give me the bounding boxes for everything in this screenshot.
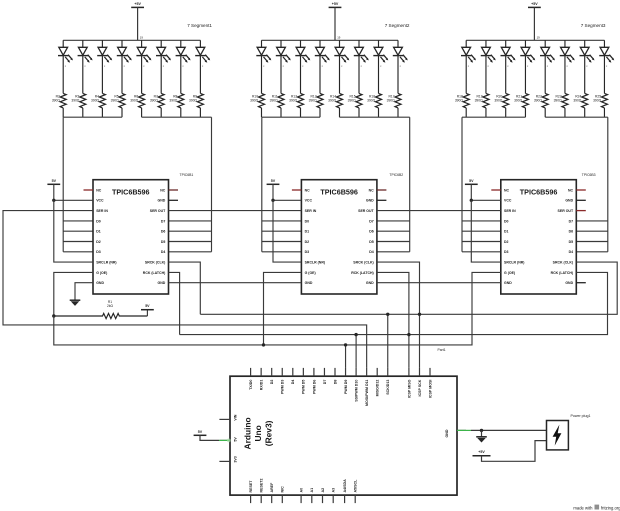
resistor R2 390ohm [52,93,66,117]
LED segment H display 3 [599,40,614,93]
ground symbol near plug [481,430,483,436]
svg-text:5V: 5V [271,179,276,183]
node PWM D9 junction [344,343,347,346]
wire GND U1 to GND U2 [169,282,302,284]
wire resistor bus right half block 1 [142,116,212,118]
svg-text:Arduino: Arduino [243,417,253,449]
resistor R5 390ohm [111,93,125,117]
power +5V near plug [473,455,491,457]
pin SER OUT U3 stub [576,210,586,212]
LED segment G display 2 [373,40,388,93]
svg-text:D5: D5 [161,240,166,244]
node +5V bus 7-segment block 1 [63,39,200,41]
svg-text:RX/D1: RX/D1 [260,380,264,391]
svg-text:SER IN: SER IN [96,209,108,213]
svg-text:G (OE): G (OE) [504,271,515,275]
pin RESET Arduino [250,495,252,503]
pin D4 Arduino [292,368,294,376]
svg-text:D7: D7 [161,219,166,223]
svg-text:19: 19 [337,36,341,40]
wire D7 to U2 [377,220,410,222]
wire RCK rail [180,272,608,334]
wire SER OUT U2 to SER IN U3 [377,210,501,212]
wire D6 to U1 [169,230,212,232]
pin GND U2 right stub [377,199,387,201]
LED segment H display 2 [393,40,408,93]
svg-text:D3: D3 [504,250,509,254]
svg-text:PWM D9: PWM D9 [344,380,348,394]
svg-text:390Ω: 390Ω [130,99,139,103]
pin NC U1 right stub [169,189,179,191]
svg-text:TPIC6B2: TPIC6B2 [389,173,403,177]
LED segment C display 2 [295,40,310,93]
pin NC U1 left stub [84,189,94,191]
LED segment A display 1 [58,40,73,93]
shift register U1 TPIC6B596 [93,180,169,294]
pin D2 Arduino [271,368,273,376]
svg-text:390Ω: 390Ω [494,99,503,103]
svg-text:D2: D2 [504,240,509,244]
svg-text:D5: D5 [569,240,574,244]
svg-text:A2: A2 [321,488,325,493]
wire RCK U2 to ICSP MISO [377,272,409,368]
svg-text:390Ω: 390Ω [348,99,357,103]
wire D3 to U1 [63,251,93,253]
LED segment G display 3 [580,40,595,93]
resistor R14 390ohm [328,93,342,117]
svg-text:5V: 5V [198,430,203,434]
svg-text:D1: D1 [305,230,310,234]
LED segment F display 1 [156,40,171,93]
svg-text:A5/SCL: A5/SCL [354,479,358,493]
resistor R24 390ohm [573,93,587,117]
svg-text:SER OUT: SER OUT [358,209,374,213]
svg-text:D0: D0 [504,219,509,223]
wire right trunk D4-D7 block 1 [211,117,213,252]
pin SCK/D13 Arduino [387,368,389,376]
svg-text:7 Segment1: 7 Segment1 [187,23,212,28]
svg-text:NC: NC [160,188,166,192]
svg-text:D4: D4 [569,250,574,254]
pin PWM D9 Arduino [345,368,347,376]
wire D7 to U1 [169,220,212,222]
svg-text:+5V: +5V [478,450,485,454]
shift register U3 TPIC6B596 [501,180,577,294]
svg-text:A3: A3 [332,488,336,493]
pin 3V3 Arduino [219,460,230,462]
wire GND U2 to GND U3 [377,282,501,284]
svg-text:390Ω: 390Ω [270,99,279,103]
svg-text:D0: D0 [96,219,101,223]
wire D5 to U2 [377,241,410,243]
wire SCK D13 to rail [387,314,389,368]
wire 5V to Arduino 5V pin [200,435,219,440]
svg-text:SCK/D13: SCK/D13 [386,380,390,395]
svg-text:D1: D1 [504,230,509,234]
resistor R20 390ohm [494,93,508,117]
svg-text:390Ω: 390Ω [150,99,159,103]
pin NC U2 right stub [377,189,387,191]
svg-text:ICSP MISO: ICSP MISO [407,379,411,398]
node +5V bus 7-segment block 2 [262,39,399,41]
wire SER OUT U1 to SER IN U2 [169,210,302,212]
power plug1 [547,421,569,450]
svg-text:390Ω: 390Ω [554,99,563,103]
resistor R19 390ohm [475,93,489,117]
wire D2 to U2 [262,241,302,243]
svg-text:NC: NC [504,188,510,192]
wire resistor bus left half block 2 [262,116,320,118]
LED segment D display 3 [520,40,535,93]
svg-text:5V: 5V [145,304,150,308]
wire +5V to power plug [482,441,547,462]
svg-text:D3: D3 [96,250,101,254]
wire left trunk D0-D3 block 2 [261,117,263,252]
svg-text:19: 19 [537,36,541,40]
svg-text:TPIC6B3: TPIC6B3 [582,173,596,177]
node SRCK ICSP junction [418,313,421,316]
wire D0 to U2 [262,220,302,222]
svg-text:390Ω: 390Ω [289,99,298,103]
svg-text:(Rev3): (Rev3) [264,420,274,446]
pin NC U3 left stub [491,189,501,191]
wire D1 to U1 [63,230,93,232]
svg-text:A0: A0 [300,488,304,493]
svg-text:390Ω: 390Ω [91,99,100,103]
wire G OE rail [54,272,501,345]
svg-text:NC: NC [305,188,311,192]
LED segment D display 1 [117,40,132,93]
shift register U2 TPIC6B596 [301,180,377,294]
pin A5/SCL Arduino [354,495,356,503]
pin NC U3 right stub [576,189,586,191]
wire VCC U2 [273,199,301,201]
svg-text:VCC: VCC [96,199,104,203]
svg-text:D3: D3 [305,250,310,254]
wire resistor bus left half block 1 [63,116,122,118]
svg-text:RESET: RESET [249,480,253,493]
wire left trunk D0-D3 block 1 [62,117,64,252]
svg-text:390Ω: 390Ω [189,99,198,103]
wire resistor bus right half block 2 [340,116,410,118]
pin NC U2 left stub [292,189,302,191]
svg-text:GND: GND [504,281,512,285]
pin ICSP SCK Arduino [419,368,421,376]
node G OE U2 junction [262,343,265,346]
pin PWM D5 Arduino [302,368,304,376]
svg-text:D4: D4 [161,250,166,254]
power +5V supply block 1 [131,6,144,8]
svg-text:RESET2: RESET2 [260,479,264,493]
svg-text:19: 19 [140,36,144,40]
svg-text:GND: GND [158,281,166,285]
svg-text:Power plug1: Power plug1 [571,414,591,418]
pin VIN Arduino [219,418,230,420]
svg-text:390Ω: 390Ω [367,99,376,103]
svg-text:390Ω: 390Ω [593,99,602,103]
pin RESET2 Arduino [260,495,262,503]
wire SRCLR to 5V U2 [273,200,301,262]
wire D5 to U1 [169,241,212,243]
pin SS/PWM D10 Arduino [355,368,357,376]
svg-text:+5V: +5V [332,2,339,6]
LED segment B display 3 [481,40,496,93]
svg-text:390Ω: 390Ω [328,99,337,103]
wire D6 to U2 [377,230,410,232]
svg-text:390Ω: 390Ω [534,99,543,103]
svg-text:N/C: N/C [281,486,285,493]
pin A4/SDA Arduino [344,495,346,503]
svg-text:D7: D7 [323,380,327,385]
svg-text:SRCLR (NR): SRCLR (NR) [504,261,524,265]
svg-text:Part1: Part1 [438,348,446,352]
svg-text:G (OE): G (OE) [96,271,107,275]
svg-text:VIN: VIN [234,414,238,420]
svg-text:D0: D0 [305,219,310,223]
resistor R22 390ohm [534,93,548,117]
svg-text:Uno: Uno [253,425,263,441]
svg-text:D8: D8 [333,380,337,385]
resistor R17 390ohm [387,93,401,117]
wire resistor bus left half block 3 [462,116,525,118]
svg-text:390Ω: 390Ω [169,99,178,103]
pin GND U3 right stub [576,199,586,201]
svg-text:NC: NC [568,188,574,192]
svg-text:390Ω: 390Ω [111,99,120,103]
watermark [573,505,620,511]
svg-text:390Ω: 390Ω [387,99,396,103]
node RCK ICSP junction [407,333,410,336]
LED segment B display 2 [276,40,291,93]
svg-text:made with: made with [573,505,593,510]
svg-text:MOSI/PWM D11: MOSI/PWM D11 [365,380,369,406]
wire D0 to U3 [462,220,501,222]
resistor R6 390ohm [130,93,144,117]
svg-text:D7: D7 [569,219,574,223]
svg-text:GND: GND [565,281,573,285]
pin TX/D0 Arduino [250,368,252,376]
svg-text:390Ω: 390Ω [455,99,464,103]
resistor R4 390ohm [91,93,105,117]
wire D4 to U2 [377,251,410,253]
svg-text:TPIC6B596: TPIC6B596 [112,187,150,196]
resistor R1 2k pullup [54,313,148,318]
svg-text:RCK (LATCH): RCK (LATCH) [143,271,166,275]
svg-text:5V: 5V [52,179,57,183]
LED segment E display 1 [136,40,151,93]
wire D3 to U3 [462,251,501,253]
Arduino Uno Part1 [230,376,457,495]
wire right trunk D4-D7 block 2 [409,117,411,252]
ground symbol U1 [70,300,81,306]
resistor R25 390ohm [593,93,607,117]
pin PWM D6 Arduino [313,368,315,376]
LED segment A display 2 [256,40,271,93]
wire VCC U3 [471,199,501,201]
LED segment G display 1 [176,40,191,93]
svg-text:D6: D6 [369,230,374,234]
wire SER IN U1 to MOSI D11 [3,211,367,368]
svg-text:MISO/D12: MISO/D12 [376,380,380,397]
svg-text:3V3: 3V3 [234,456,238,462]
svg-text:PWM D6: PWM D6 [312,380,316,394]
svg-text:SRCLR (NR): SRCLR (NR) [96,261,116,265]
resistor R10 390ohm [250,93,264,117]
power 5V supply U1 [47,183,60,185]
pin MOSI/PWM D11 Arduino [366,368,368,376]
svg-text:390Ω: 390Ω [71,99,80,103]
power 5V supply U2 [267,183,280,185]
svg-text:A1: A1 [310,488,314,493]
resistor R7 390ohm [150,93,164,117]
svg-text:D4: D4 [369,250,374,254]
svg-text:D2: D2 [270,380,274,385]
resistor R9 390ohm [189,93,203,117]
svg-text:SRCLR (NR): SRCLR (NR) [305,261,325,265]
svg-text:RCK (LATCH): RCK (LATCH) [551,271,574,275]
wire G OE U1 down [54,272,93,316]
pin GND Arduino [457,429,466,431]
svg-text:ICSP SCK: ICSP SCK [418,379,422,396]
LED segment E display 3 [540,40,555,93]
wire resistor bus right half block 3 [545,116,608,118]
pin MISO/D12 Arduino [376,368,378,376]
svg-text:SS/PWM D10: SS/PWM D10 [355,380,359,402]
wire left trunk D0-D3 block 3 [461,117,463,252]
pin A3 Arduino [332,495,334,503]
wire D3 to U2 [262,251,302,253]
svg-text:D2: D2 [305,240,310,244]
wire D7 to U3 [576,220,608,222]
svg-text:+5V: +5V [531,2,538,6]
wire D4 to U1 [169,251,212,253]
wire SRCLR to 5V U1 [54,200,93,262]
power 5V supply U3 [465,183,478,185]
pin N/C Arduino [281,495,283,503]
LED segment A display 3 [461,40,476,93]
resistor R13 390ohm [309,93,323,117]
svg-text:RCK (LATCH): RCK (LATCH) [351,271,374,275]
svg-text:TPIC6B1: TPIC6B1 [180,173,194,177]
svg-text:5V: 5V [234,437,238,442]
power +5V supply block 2 [329,6,342,8]
svg-text:GND: GND [96,281,104,285]
svg-text:GND: GND [565,199,573,203]
wire D6 to U3 [576,230,608,232]
node VCC junction U2 [271,199,274,202]
svg-text:7 Segment2: 7 Segment2 [385,23,410,28]
LED segment D display 2 [315,40,330,93]
svg-text:390Ω: 390Ω [573,99,582,103]
wire SRCLR to 5V U3 [471,200,501,262]
LED segment C display 3 [501,40,516,93]
svg-text:GND: GND [445,429,449,437]
svg-text:D2: D2 [96,240,101,244]
svg-text:D6: D6 [569,230,574,234]
pin 5V Arduino [219,439,230,441]
LED segment H display 1 [195,40,210,93]
LED segment C display 1 [97,40,112,93]
pin ICSP MISO Arduino [408,368,410,376]
svg-text:SRCK (CLK): SRCK (CLK) [553,261,573,265]
svg-text:SRCK (CLK): SRCK (CLK) [353,261,373,265]
svg-text:PWM D3: PWM D3 [281,380,285,394]
power +5V supply block 3 [528,6,541,8]
wire SS D10 to rail [355,335,357,368]
resistor R15 390ohm [348,93,362,117]
wire G OE U2 [264,272,302,345]
svg-text:PWM D5: PWM D5 [302,380,306,394]
svg-text:D7: D7 [369,219,374,223]
svg-text:SER OUT: SER OUT [558,209,574,213]
LED segment F display 3 [560,40,575,93]
wire VCC U1 [54,199,93,201]
svg-text:VCC: VCC [504,199,512,203]
pin RX/D1 Arduino [260,368,262,376]
svg-text:TX/D0: TX/D0 [249,380,253,390]
svg-text:GND: GND [366,281,374,285]
svg-text:390Ω: 390Ω [250,99,259,103]
wire G OE to PWM D9 [345,345,347,368]
wire SRCK U1 down [169,262,201,314]
wire D0 to U1 [63,220,93,222]
resistor R3 390ohm [71,93,85,117]
wire D4 to U3 [576,251,608,253]
wire D1 to U3 [462,230,501,232]
pin ICSP MOSI Arduino [429,368,431,376]
wire GND U1 to ground [75,283,93,301]
pin D8 Arduino [334,368,336,376]
svg-text:SER IN: SER IN [305,209,317,213]
resistor R12 390ohm [289,93,303,117]
svg-text:NC: NC [96,188,102,192]
svg-text:+5V: +5V [134,2,141,6]
svg-text:SER IN: SER IN [504,209,516,213]
wire SRCK U2 to ICSP SCK [377,262,420,368]
power 5V supply Arduino [194,434,207,436]
node SCK D13 junction [386,313,389,316]
svg-text:5V: 5V [469,179,474,183]
pin A2 Arduino [322,495,324,503]
svg-text:fritzing.org: fritzing.org [601,505,620,510]
resistor R18 390ohm [455,93,469,117]
pin A0 Arduino [300,495,302,503]
wire D2 to U3 [462,241,501,243]
pin AREF Arduino [271,495,273,503]
svg-text:TPIC6B596: TPIC6B596 [520,187,558,196]
node GND junction [480,429,483,432]
svg-text:2kΩ: 2kΩ [107,304,113,308]
svg-text:NC: NC [369,188,375,192]
wire D5 to U3 [576,241,608,243]
wire D1 to U2 [262,230,302,232]
LED segment F display 2 [354,40,369,93]
svg-text:390Ω: 390Ω [52,99,61,103]
pin GND U3 right bottom stub [576,282,586,284]
svg-text:GND: GND [158,199,166,203]
node +5V bus 7-segment block 3 [466,39,604,41]
svg-text:GND: GND [305,281,313,285]
svg-text:7 Segment3: 7 Segment3 [581,23,606,28]
pin PWM D3 Arduino [281,368,283,376]
power 5V for R1 [146,310,148,316]
svg-text:AREF: AREF [270,482,274,493]
resistor R8 390ohm [169,93,183,117]
resistor R23 390ohm [554,93,568,117]
wire RCK U1 down [169,272,180,334]
LED segment B display 1 [78,40,93,93]
node SS D10 junction [354,333,357,336]
